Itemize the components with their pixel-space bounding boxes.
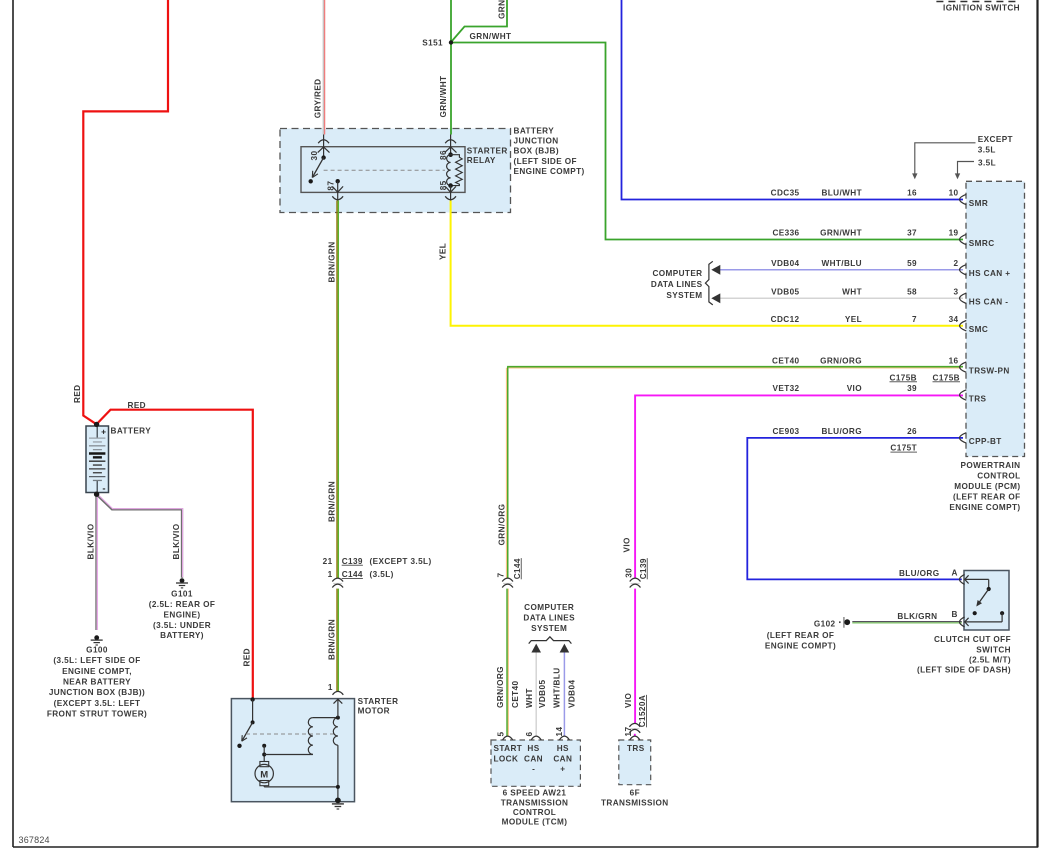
svg-text:TRS: TRS (969, 394, 987, 403)
svg-text:CAN: CAN (524, 754, 543, 763)
svg-text:5: 5 (497, 732, 506, 737)
svg-text:10: 10 (949, 189, 959, 198)
svg-text:1: 1 (328, 570, 333, 579)
svg-text:VIO: VIO (624, 692, 633, 708)
svg-text:JUNCTION: JUNCTION (514, 137, 559, 146)
svg-text:JUNCTION BOX (BJB)): JUNCTION BOX (BJB)) (49, 688, 145, 697)
svg-text:STARTER: STARTER (358, 697, 399, 706)
svg-text:3: 3 (954, 288, 959, 297)
svg-text:CET40: CET40 (772, 356, 800, 365)
svg-text:16: 16 (907, 189, 917, 198)
svg-text:IGNITION SWITCH: IGNITION SWITCH (943, 4, 1020, 13)
svg-text:GRN/ORG: GRN/ORG (497, 504, 506, 546)
svg-text:STARTER: STARTER (467, 146, 508, 155)
svg-text:14: 14 (555, 727, 564, 737)
svg-text:CAN: CAN (553, 754, 572, 763)
svg-text:(3.5L: UNDER: (3.5L: UNDER (153, 621, 211, 630)
svg-text:COMPUTER: COMPUTER (652, 269, 702, 278)
svg-text:2: 2 (954, 259, 959, 268)
svg-text:CE336: CE336 (772, 229, 799, 238)
svg-text:3.5L: 3.5L (978, 158, 996, 167)
svg-text:POWERTRAIN: POWERTRAIN (961, 461, 1021, 470)
svg-text:26: 26 (907, 427, 917, 436)
svg-text:86: 86 (439, 150, 448, 160)
svg-text:COMPUTER: COMPUTER (524, 603, 574, 612)
svg-text:ENGINE COMPT): ENGINE COMPT) (949, 503, 1020, 512)
svg-text:WHT: WHT (525, 688, 534, 708)
svg-text:(2.5L: REAR OF: (2.5L: REAR OF (149, 600, 216, 609)
svg-text:17: 17 (624, 727, 633, 737)
svg-text:WHT/BLU: WHT/BLU (552, 667, 561, 708)
svg-text:MOTOR: MOTOR (358, 706, 390, 715)
svg-text:7: 7 (496, 573, 505, 578)
svg-text:VET32: VET32 (772, 384, 799, 393)
svg-text:FRONT STRUT TOWER): FRONT STRUT TOWER) (47, 710, 147, 719)
svg-text:VDB04: VDB04 (771, 259, 799, 268)
svg-text:-: - (532, 764, 535, 773)
svg-text:VIO: VIO (623, 537, 632, 553)
svg-text:C144: C144 (342, 570, 363, 579)
svg-text:(EXCEPT 3.5L: LEFT: (EXCEPT 3.5L: LEFT (54, 699, 141, 708)
svg-text:B: B (952, 610, 958, 619)
svg-text:58: 58 (907, 288, 917, 297)
svg-text:WHT/BLU: WHT/BLU (821, 259, 862, 268)
svg-text:VDB05: VDB05 (538, 680, 547, 708)
svg-text:C139: C139 (639, 558, 648, 579)
svg-text:C175B: C175B (933, 373, 961, 382)
svg-text:BLU/WHT: BLU/WHT (821, 189, 862, 198)
svg-text:CLUTCH CUT OFF: CLUTCH CUT OFF (934, 635, 1011, 644)
svg-text:G102: G102 (814, 619, 836, 628)
svg-text:EXCEPT: EXCEPT (978, 135, 1013, 144)
svg-text:CDC35: CDC35 (771, 189, 800, 198)
svg-text:34: 34 (949, 315, 959, 324)
svg-text:GRN/WHT: GRN/WHT (439, 76, 448, 118)
svg-text:GRN/WHT: GRN/WHT (470, 32, 512, 41)
svg-text:YEL: YEL (439, 243, 448, 260)
svg-text:367824: 367824 (19, 835, 50, 845)
svg-text:SMC: SMC (969, 325, 988, 334)
svg-text:CDC12: CDC12 (771, 315, 800, 324)
svg-text:BLU/ORG: BLU/ORG (899, 569, 940, 578)
svg-text:39: 39 (907, 384, 917, 393)
svg-text:GRN/ORG: GRN/ORG (496, 666, 505, 708)
svg-text:(2.5L M/T): (2.5L M/T) (969, 656, 1011, 665)
svg-text:GRY/RED: GRY/RED (314, 78, 323, 118)
svg-text:C1520A: C1520A (638, 695, 647, 727)
svg-text:30: 30 (310, 151, 319, 161)
svg-text:C139: C139 (342, 557, 363, 566)
svg-text:C144: C144 (513, 558, 522, 579)
svg-text:BLK/VIO: BLK/VIO (172, 523, 181, 559)
svg-text:HS: HS (527, 744, 539, 753)
svg-text:ENGINE COMPT): ENGINE COMPT) (765, 641, 836, 650)
svg-text:BATTERY: BATTERY (111, 427, 152, 436)
svg-text:MODULE (PCM): MODULE (PCM) (954, 482, 1020, 491)
svg-text:1: 1 (328, 683, 333, 692)
svg-text:C175B: C175B (890, 373, 918, 382)
svg-text:GRN: GRN (498, 0, 507, 19)
svg-text:SWITCH: SWITCH (976, 645, 1011, 654)
svg-text:+: + (101, 427, 106, 437)
svg-text:RED: RED (73, 385, 82, 404)
svg-text:(LEFT SIDE OF DASH): (LEFT SIDE OF DASH) (917, 666, 1011, 675)
svg-text:(LEFT SIDE OF: (LEFT SIDE OF (514, 157, 577, 166)
svg-text:37: 37 (907, 229, 917, 238)
svg-text:BRN/GRN: BRN/GRN (327, 241, 336, 282)
svg-text:30: 30 (625, 568, 634, 578)
svg-text:VDB05: VDB05 (771, 288, 799, 297)
svg-text:G100: G100 (86, 645, 108, 654)
svg-text:GRN/WHT: GRN/WHT (820, 229, 862, 238)
svg-text:BRN/GRN: BRN/GRN (327, 619, 336, 660)
svg-text:HS: HS (557, 744, 569, 753)
svg-text:ENGINE): ENGINE) (164, 610, 201, 619)
svg-text:MODULE (TCM): MODULE (TCM) (502, 818, 568, 827)
svg-text:-: - (102, 484, 105, 495)
svg-text:85: 85 (439, 180, 448, 190)
svg-text:START: START (494, 744, 523, 753)
svg-text:NEAR BATTERY: NEAR BATTERY (63, 678, 131, 687)
svg-text:BOX (BJB): BOX (BJB) (514, 147, 559, 156)
svg-text:(3.5L: LEFT SIDE OF: (3.5L: LEFT SIDE OF (53, 656, 140, 665)
svg-text:CONTROL: CONTROL (513, 808, 556, 817)
svg-text:A: A (952, 569, 958, 578)
svg-text:RED: RED (243, 648, 252, 667)
svg-text:CET40: CET40 (511, 680, 520, 708)
svg-text:SMR: SMR (969, 199, 988, 208)
svg-text:DATA LINES: DATA LINES (651, 280, 703, 289)
svg-text:S151: S151 (422, 39, 443, 48)
svg-text:16: 16 (949, 356, 959, 365)
svg-text:TRANSMISSION: TRANSMISSION (501, 798, 569, 807)
svg-text:WHT: WHT (842, 288, 862, 297)
svg-text:RED: RED (128, 401, 147, 410)
svg-text:7: 7 (912, 315, 917, 324)
svg-text:TRSW-PN: TRSW-PN (969, 366, 1010, 375)
svg-text:59: 59 (907, 259, 917, 268)
svg-text:(EXCEPT 3.5L): (EXCEPT 3.5L) (370, 557, 432, 566)
svg-text:TRS: TRS (627, 744, 645, 753)
svg-text:19: 19 (949, 229, 959, 238)
svg-text:VDB04: VDB04 (568, 680, 577, 708)
svg-text:ENGINE COMPT,: ENGINE COMPT, (62, 667, 132, 676)
svg-text:GRN/ORG: GRN/ORG (820, 356, 862, 365)
svg-text:TRANSMISSION: TRANSMISSION (601, 798, 669, 807)
svg-text:87: 87 (327, 181, 336, 191)
svg-text:LOCK: LOCK (494, 754, 519, 763)
svg-text:(LEFT REAR OF: (LEFT REAR OF (953, 493, 1021, 502)
svg-text:VIO: VIO (847, 384, 863, 393)
svg-text:RELAY: RELAY (467, 156, 496, 165)
svg-text:SMRC: SMRC (969, 239, 995, 248)
svg-text:6F: 6F (630, 789, 640, 798)
svg-text:BLU/ORG: BLU/ORG (821, 427, 862, 436)
svg-text:+: + (560, 765, 565, 774)
svg-text:YEL: YEL (845, 315, 862, 324)
svg-text:CE903: CE903 (772, 427, 799, 436)
svg-text:SYSTEM: SYSTEM (531, 624, 567, 633)
svg-text:SYSTEM: SYSTEM (666, 291, 702, 300)
svg-text:M: M (260, 769, 268, 780)
svg-text:HS CAN +: HS CAN + (969, 269, 1011, 278)
svg-text:6 SPEED AW21: 6 SPEED AW21 (503, 789, 567, 798)
svg-text:3.5L: 3.5L (978, 145, 996, 154)
svg-text:BLK/VIO: BLK/VIO (86, 523, 95, 559)
svg-text:G101: G101 (171, 589, 193, 598)
svg-text:HS CAN -: HS CAN - (969, 298, 1009, 307)
svg-text:ENGINE COMPT): ENGINE COMPT) (514, 167, 585, 176)
svg-text:(3.5L): (3.5L) (370, 570, 394, 579)
svg-text:BATTERY: BATTERY (514, 127, 555, 136)
svg-text:CPP-BT: CPP-BT (969, 437, 1002, 446)
svg-text:DATA LINES: DATA LINES (523, 614, 575, 623)
svg-text:C175T: C175T (890, 444, 917, 453)
svg-text:BATTERY): BATTERY) (160, 631, 204, 640)
svg-text:(LEFT REAR OF: (LEFT REAR OF (767, 631, 835, 640)
svg-text:21: 21 (323, 557, 333, 566)
svg-text:BRN/GRN: BRN/GRN (327, 481, 336, 522)
svg-text:CONTROL: CONTROL (977, 472, 1020, 481)
svg-text:6: 6 (525, 732, 534, 737)
svg-text:BLK/GRN: BLK/GRN (897, 612, 937, 621)
